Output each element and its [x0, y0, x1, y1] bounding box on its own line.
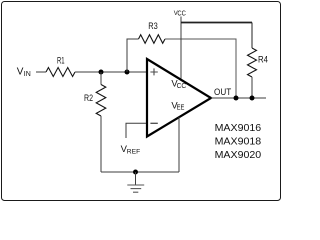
- svg-text:MAX9018: MAX9018: [215, 136, 262, 148]
- wire R4 to output node: [251, 77, 253, 98]
- op-amp VCC pin label: [171, 78, 186, 90]
- svg-text:CC: CC: [177, 10, 186, 17]
- label VREF: [121, 144, 141, 155]
- op-amp + input symbol: [150, 68, 157, 75]
- op-amp U1: [147, 59, 211, 137]
- svg-text:OUT: OUT: [214, 87, 232, 97]
- output junction dot (R4): [250, 96, 255, 101]
- ground: [127, 172, 144, 192]
- svg-text:R2: R2: [84, 93, 93, 103]
- wire down to R4: [251, 23, 253, 49]
- wire VIN to R1: [36, 71, 46, 73]
- svg-text:R3: R3: [148, 21, 158, 31]
- ground junction dot: [133, 170, 138, 175]
- wire VEE pin down to bottom rail: [178, 117, 180, 172]
- svg-text:MAX9016: MAX9016: [215, 122, 262, 134]
- wire R3 to output node: [165, 39, 236, 98]
- label VCC supply: [174, 10, 186, 17]
- wire VCC branch to R4: [181, 22, 252, 24]
- svg-text:R4: R4: [258, 55, 268, 65]
- svg-text:CC: CC: [177, 83, 187, 90]
- op-amp VEE pin label: [171, 99, 184, 111]
- wire - input to VREF stub: [126, 123, 146, 138]
- resistor R1: [46, 68, 75, 77]
- svg-text:V: V: [17, 67, 24, 78]
- svg-text:R1: R1: [57, 56, 65, 66]
- svg-text:MAX9020: MAX9020: [215, 149, 262, 161]
- svg-text:EE: EE: [177, 105, 185, 112]
- svg-text:IN: IN: [24, 71, 31, 78]
- node A junction dot (R1/R2): [99, 70, 104, 75]
- border frame: [2, 2, 281, 201]
- wire bottom rail: [101, 171, 179, 173]
- wire feedback vertical from node B up to R3: [127, 39, 139, 72]
- resistor R4: [248, 48, 257, 77]
- node B junction dot (feedback): [125, 70, 130, 75]
- resistor R2: [96, 85, 106, 117]
- wire node A down to R2: [100, 72, 102, 85]
- output junction dot (feedback): [234, 96, 239, 101]
- svg-text:REF: REF: [127, 148, 140, 155]
- wire VCC supply down to op-amp VCC pin: [180, 17, 182, 79]
- resistor R3: [139, 35, 166, 44]
- wire output: [211, 97, 266, 99]
- op-amp - input symbol: [150, 122, 157, 124]
- label VIN: [17, 67, 31, 78]
- wire R2 to bottom rail: [100, 116, 102, 172]
- wire R1 to op-amp + input: [75, 71, 146, 73]
